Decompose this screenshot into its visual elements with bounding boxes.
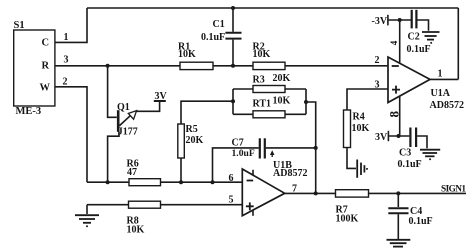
wire R3/RT1 node to vertical bus [306, 102, 316, 193]
wire R1 to R2 [213, 65, 253, 67]
transistor Q1 J177 [108, 66, 160, 182]
wire R3/RT1 left bar [233, 89, 253, 114]
svg-text:3V: 3V [375, 132, 388, 143]
svg-text:4: 4 [389, 40, 399, 45]
svg-text:R4: R4 [353, 112, 365, 123]
svg-text:0.1uF: 0.1uF [407, 44, 431, 55]
connector S1 ME-3 sensor box [14, 20, 55, 117]
junction C1 top on rail [231, 6, 235, 10]
wire R8 to U1B pin 5 [161, 195, 243, 206]
junction Q1 drain on R6 line [106, 180, 110, 184]
wire R7 to SIGN1 [369, 185, 467, 195]
wire U1B output pin 7 [285, 184, 336, 195]
junction R5 on pin6 line [179, 180, 183, 184]
power -3V [372, 15, 412, 27]
svg-text:U1A: U1A [431, 88, 451, 99]
svg-text:ME-3: ME-3 [16, 106, 42, 117]
svg-text:2: 2 [63, 77, 68, 88]
svg-text:R5: R5 [186, 124, 198, 135]
svg-text:10K: 10K [273, 96, 291, 107]
junction C7 right on vertical bus [314, 146, 318, 150]
capacitor C4 [388, 193, 432, 239]
junction pin8 on 3V wire [397, 134, 401, 138]
svg-text:3: 3 [375, 80, 380, 91]
wire R5 bottom to pin6 line [180, 158, 182, 182]
svg-text:10K: 10K [178, 49, 196, 60]
svg-text:C1: C1 [213, 19, 225, 30]
svg-text:2: 2 [375, 55, 380, 66]
resistor R1 [178, 42, 213, 70]
svg-text:SIGN1: SIGN1 [441, 185, 466, 195]
svg-text:3: 3 [64, 55, 69, 66]
junction Q1 gate tap on R line [106, 64, 110, 68]
op-amp U1B AD8572 [242, 160, 307, 216]
resistor R8 [127, 201, 161, 235]
wire R6 to U1B pin 6 [161, 173, 243, 184]
wire pin 3 (R) line [55, 55, 180, 66]
ground at R4 (rotated) [357, 160, 368, 178]
svg-text:C3: C3 [399, 148, 411, 159]
svg-text:C: C [42, 38, 50, 49]
resistor R5 [178, 124, 204, 158]
wire pin 1 (C) to top rail [55, 8, 87, 43]
svg-text:6: 6 [229, 173, 234, 184]
resistor R3 [253, 73, 291, 93]
ground at C4 [387, 240, 411, 247]
svg-text:1.0uF: 1.0uF [232, 148, 255, 159]
svg-text:3V: 3V [155, 91, 168, 102]
svg-text:W: W [40, 83, 51, 94]
wire feedback right drop to U1A output [457, 8, 459, 79]
junction C7 left on pin6 line [211, 180, 215, 184]
svg-text:Q1: Q1 [117, 102, 130, 113]
power 3V above Q1 [154, 91, 168, 102]
svg-text:7: 7 [292, 184, 297, 195]
wire R6 line left [87, 181, 129, 183]
svg-text:10K: 10K [127, 225, 145, 236]
power 3V at C3 [375, 131, 409, 143]
wire R2 to U1A pin 2 [285, 55, 388, 66]
ground at R8 left [75, 205, 99, 228]
svg-text:1: 1 [438, 69, 443, 80]
resistor R2 [253, 42, 286, 70]
wire U1A pin 8 [387, 96, 402, 136]
svg-text:S1: S1 [14, 20, 25, 31]
svg-text:-3V: -3V [372, 16, 388, 27]
svg-text:R: R [42, 61, 50, 72]
resistor R4 [344, 110, 370, 148]
svg-text:0.1uF: 0.1uF [201, 32, 225, 43]
wire top feedback rail [87, 7, 458, 9]
svg-text:1: 1 [64, 32, 69, 43]
svg-text:47: 47 [127, 167, 137, 178]
svg-text:20K: 20K [273, 73, 291, 84]
svg-text:AD8572: AD8572 [273, 168, 307, 179]
svg-text:C7: C7 [232, 138, 244, 149]
ground at C3 [420, 150, 440, 161]
svg-text:10K: 10K [352, 123, 370, 134]
svg-text:10K: 10K [253, 49, 271, 60]
junction C1 bottom on R line [231, 64, 235, 68]
ground at C2 [422, 32, 440, 44]
resistor R7 [336, 190, 369, 225]
junction on R3/RT1 right bar [304, 100, 308, 104]
svg-text:5: 5 [229, 195, 234, 206]
svg-text:8: 8 [387, 111, 402, 118]
thermistor RT1 [253, 96, 291, 118]
wire U1A output pin 1 [430, 69, 458, 80]
capacitor C2 [407, 10, 431, 55]
svg-text:AD8572: AD8572 [430, 100, 464, 111]
svg-text:20K: 20K [186, 135, 204, 146]
capacitor C7 feedback [213, 138, 316, 183]
capacitor C3 [398, 128, 428, 171]
svg-text:J177: J177 [118, 127, 138, 138]
junction bus on output line [314, 191, 318, 195]
svg-text:RT1: RT1 [253, 99, 272, 110]
svg-text:R3: R3 [253, 75, 265, 86]
wire R4 bottom to ground [347, 148, 356, 169]
wire U1A pin 4 [389, 20, 400, 64]
svg-text:0.1uF: 0.1uF [398, 159, 422, 170]
junction node A on left bar [231, 99, 235, 103]
op-amp U1A AD8572 [388, 57, 464, 111]
resistor R6 [127, 159, 161, 186]
svg-text:100K: 100K [336, 214, 359, 225]
junction pin4 on -3V wire [398, 18, 402, 22]
junction C4 on output line [396, 191, 400, 195]
wire node A to R5 top [181, 101, 233, 124]
wire U1A pin 3 to R4 [347, 80, 388, 111]
svg-text:C2: C2 [408, 32, 420, 43]
capacitor C1 [201, 8, 242, 66]
wire pin 2 (W) down to R6 line [55, 77, 87, 183]
svg-text:0.1uF: 0.1uF [409, 216, 433, 227]
wire R3/RT1 right bar [285, 89, 306, 114]
wire ground to R8 [87, 204, 129, 206]
